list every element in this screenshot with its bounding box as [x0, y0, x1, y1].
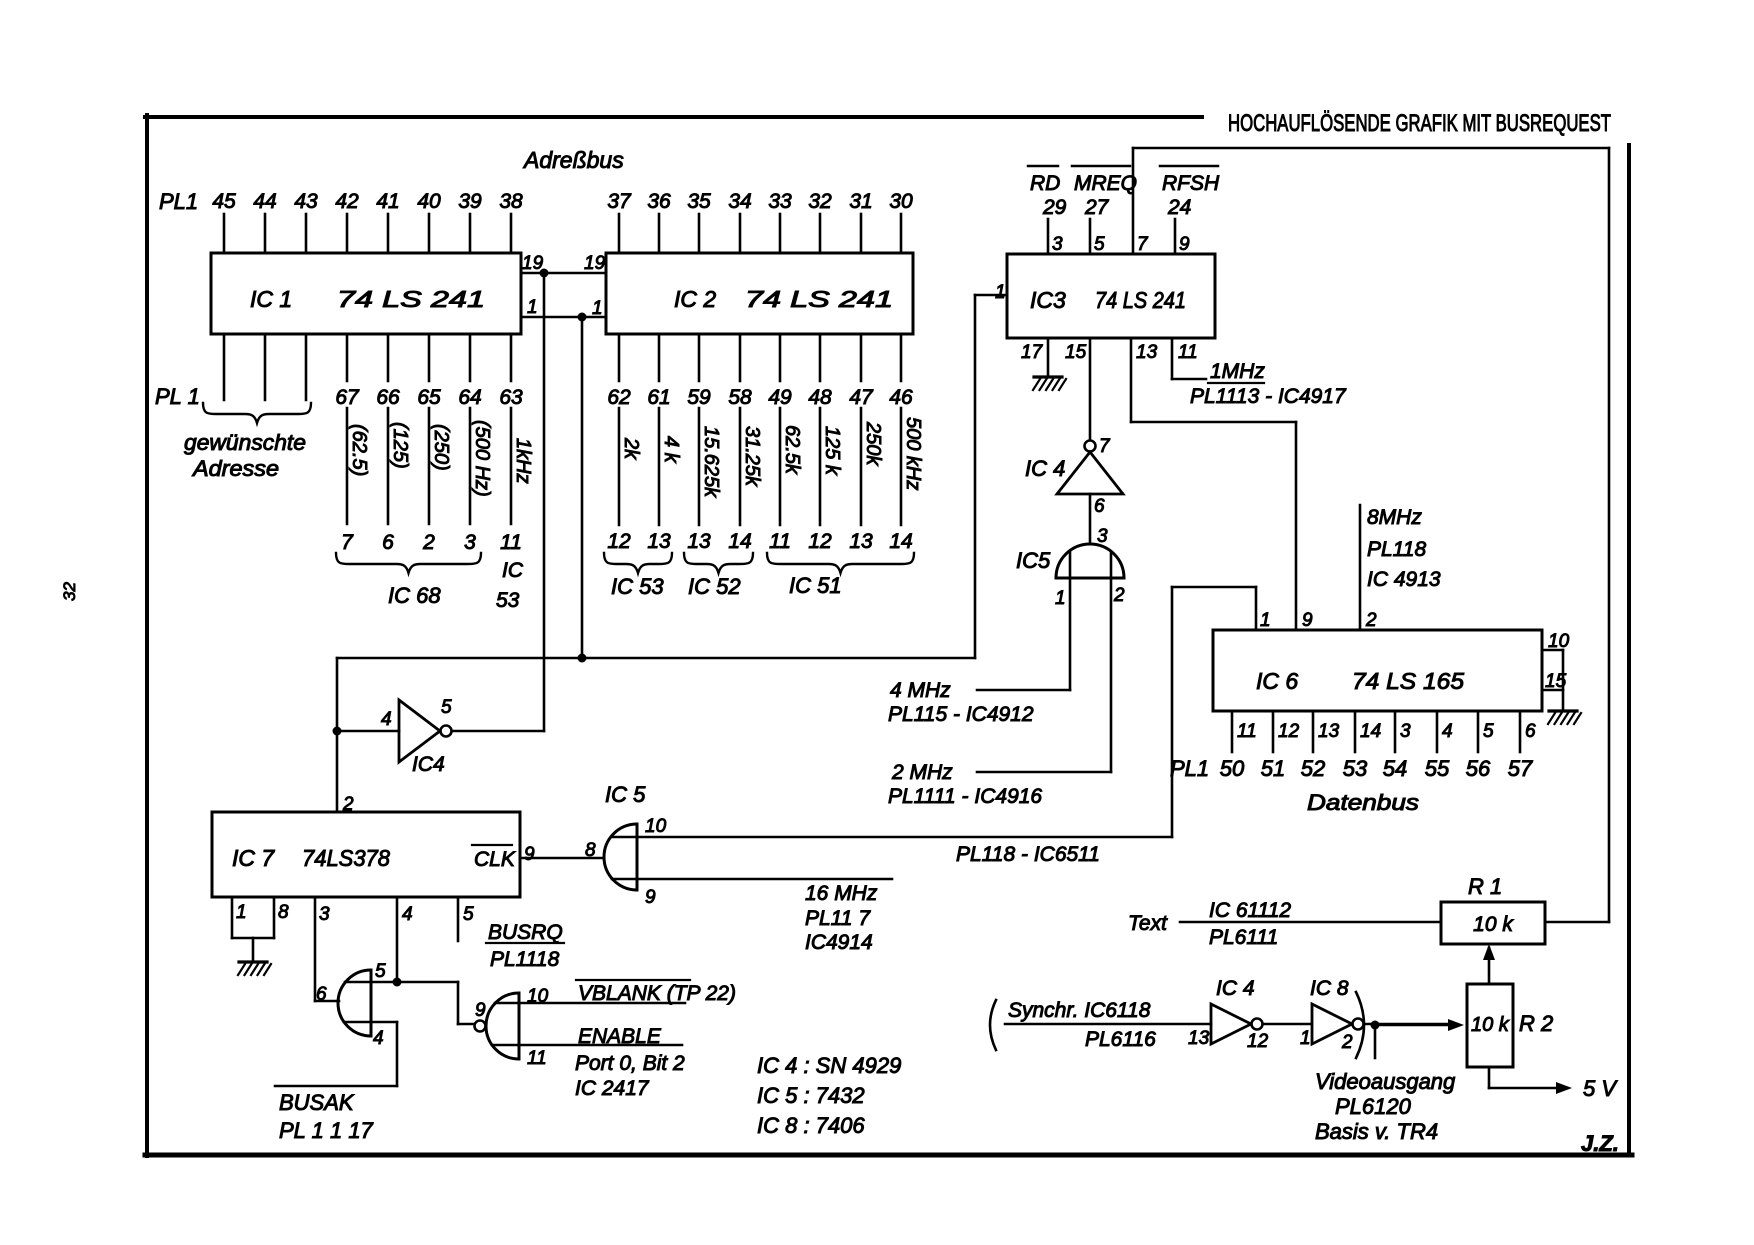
svg-text:IC 4913: IC 4913 [1367, 568, 1441, 591]
svg-text:IC4914: IC4914 [805, 931, 873, 954]
svg-text:IC 51: IC 51 [789, 573, 842, 598]
svg-text:Synchr. IC6118: Synchr. IC6118 [1008, 999, 1151, 1022]
svg-text:32: 32 [808, 190, 832, 213]
svg-text:RFSH: RFSH [1162, 172, 1220, 195]
svg-text:(500 Hz): (500 Hz) [471, 420, 493, 497]
svg-text:1: 1 [592, 298, 603, 319]
svg-text:IC 8 : 7406: IC 8 : 7406 [757, 1113, 865, 1138]
svg-text:31: 31 [849, 190, 872, 213]
svg-text:4 k: 4 k [660, 436, 682, 464]
svg-text:Port 0, Bit 2: Port 0, Bit 2 [575, 1052, 685, 1075]
svg-text:7: 7 [341, 531, 354, 554]
svg-text:6: 6 [1094, 496, 1105, 517]
svg-text:13: 13 [1136, 342, 1158, 363]
svg-text:47: 47 [849, 386, 874, 409]
svg-text:11: 11 [1237, 721, 1257, 742]
svg-text:5 V: 5 V [1583, 1076, 1618, 1101]
svg-text:46: 46 [889, 386, 913, 409]
svg-text:37: 37 [607, 190, 632, 213]
svg-text:PL118 - IC6511: PL118 - IC6511 [956, 843, 1100, 866]
svg-text:14: 14 [889, 530, 912, 553]
svg-text:38: 38 [499, 190, 523, 213]
svg-text:5: 5 [375, 961, 386, 982]
svg-text:2: 2 [1341, 1032, 1353, 1053]
svg-text:7: 7 [1099, 436, 1111, 457]
svg-text:41: 41 [376, 190, 399, 213]
svg-text:30: 30 [889, 190, 913, 213]
svg-text:62.5k: 62.5k [781, 425, 803, 475]
svg-text:15: 15 [1065, 342, 1087, 363]
svg-text:9: 9 [524, 844, 535, 865]
svg-text:11: 11 [1178, 342, 1198, 363]
svg-text:33: 33 [768, 190, 792, 213]
svg-text:4: 4 [381, 709, 392, 730]
svg-text:IC 4: IC 4 [1216, 977, 1255, 1000]
svg-text:11: 11 [500, 531, 522, 554]
svg-text:9: 9 [1179, 234, 1190, 255]
svg-text:52: 52 [1301, 756, 1325, 781]
svg-text:53: 53 [1343, 756, 1368, 781]
svg-text:6: 6 [316, 984, 327, 1005]
svg-text:IC 6: IC 6 [1256, 668, 1298, 694]
svg-text:54: 54 [1383, 756, 1407, 781]
svg-text:1: 1 [1260, 610, 1271, 631]
svg-text:10 k: 10 k [1471, 1014, 1510, 1036]
svg-text:2: 2 [342, 794, 354, 815]
svg-text:IC5: IC5 [1016, 548, 1051, 573]
svg-text:4: 4 [1442, 721, 1453, 742]
svg-text:63: 63 [499, 386, 523, 409]
svg-text:10: 10 [645, 816, 667, 837]
svg-text:19: 19 [584, 253, 606, 274]
svg-text:5: 5 [1483, 721, 1494, 742]
svg-text:39: 39 [458, 190, 482, 213]
svg-text:11: 11 [527, 1048, 547, 1069]
svg-text:2: 2 [1113, 585, 1125, 606]
svg-text:40: 40 [417, 190, 441, 213]
svg-text:5: 5 [1094, 234, 1105, 255]
svg-text:Text: Text [1128, 912, 1168, 935]
svg-text:IC 53: IC 53 [611, 574, 664, 599]
svg-text:2 MHz: 2 MHz [891, 761, 953, 784]
svg-text:44: 44 [253, 190, 276, 213]
svg-text:Adresse: Adresse [191, 456, 279, 481]
svg-text:8: 8 [278, 902, 289, 923]
svg-text:61: 61 [647, 386, 670, 409]
svg-text:6: 6 [382, 531, 394, 554]
svg-text:42: 42 [335, 190, 359, 213]
svg-text:Datenbus: Datenbus [1307, 790, 1419, 815]
svg-text:PL1111 - IC4916: PL1111 - IC4916 [888, 785, 1042, 808]
svg-text:74 LS 241: 74 LS 241 [1095, 287, 1186, 313]
svg-text:PL115 - IC4912: PL115 - IC4912 [888, 703, 1034, 726]
svg-text:RD: RD [1030, 172, 1060, 195]
svg-text:12: 12 [607, 530, 631, 553]
svg-text:Basis v. TR4: Basis v. TR4 [1315, 1119, 1438, 1144]
svg-text:gewünschte: gewünschte [184, 430, 306, 455]
svg-text:IC 4: IC 4 [1025, 456, 1065, 481]
svg-text:50: 50 [1220, 756, 1245, 781]
svg-text:IC 2417: IC 2417 [575, 1077, 650, 1100]
svg-text:1: 1 [995, 282, 1006, 303]
svg-text:250k: 250k [862, 421, 884, 466]
svg-text:14: 14 [728, 530, 751, 553]
svg-text:1: 1 [236, 902, 247, 923]
svg-text:32: 32 [60, 582, 79, 601]
svg-text:10 k: 10 k [1473, 913, 1514, 936]
svg-text:66: 66 [376, 386, 400, 409]
svg-text:53: 53 [496, 589, 520, 612]
svg-text:45: 45 [212, 190, 236, 213]
svg-text:1: 1 [1300, 1028, 1311, 1049]
svg-text:PL1: PL1 [1170, 756, 1209, 781]
svg-text:IC 7: IC 7 [232, 845, 275, 871]
svg-text:6: 6 [1525, 721, 1536, 742]
svg-text:24: 24 [1167, 196, 1191, 219]
svg-text:8: 8 [585, 840, 596, 861]
svg-text:IC 5: IC 5 [605, 782, 646, 807]
svg-text:BUSAK: BUSAK [279, 1090, 355, 1115]
svg-text:MREQ: MREQ [1074, 172, 1137, 195]
svg-text:3: 3 [319, 904, 330, 925]
svg-text:IC 8: IC 8 [1310, 977, 1349, 1000]
svg-text:48: 48 [808, 386, 832, 409]
svg-text:IC: IC [502, 559, 524, 582]
svg-text:IC3: IC3 [1030, 287, 1066, 313]
svg-text:PL1118: PL1118 [490, 948, 560, 971]
svg-text:PL1: PL1 [159, 189, 198, 214]
svg-text:10: 10 [1548, 631, 1570, 652]
svg-text:PL11 7: PL11 7 [805, 907, 871, 930]
svg-text:9: 9 [1302, 610, 1313, 631]
svg-text:8MHz: 8MHz [1367, 506, 1422, 529]
svg-text:J.Z.: J.Z. [1581, 1131, 1619, 1156]
svg-text:1kHz: 1kHz [512, 438, 534, 484]
svg-text:VBLANK (TP 22): VBLANK (TP 22) [578, 982, 736, 1005]
svg-text:57: 57 [1508, 756, 1533, 781]
svg-text:15.625k: 15.625k [700, 426, 722, 498]
svg-text:43: 43 [294, 190, 318, 213]
svg-text:1: 1 [1055, 588, 1066, 609]
svg-text:5: 5 [463, 904, 474, 925]
svg-text:13: 13 [1188, 1028, 1210, 1049]
svg-text:IC4: IC4 [412, 753, 445, 776]
svg-text:PL6120: PL6120 [1335, 1094, 1412, 1119]
svg-text:58: 58 [728, 386, 752, 409]
svg-text:3: 3 [1400, 721, 1411, 742]
svg-text:27: 27 [1084, 196, 1110, 219]
svg-text:2k: 2k [620, 437, 642, 460]
svg-text:2: 2 [422, 531, 435, 554]
svg-text:2: 2 [1365, 610, 1377, 631]
svg-text:PL 1: PL 1 [155, 384, 200, 409]
svg-text:16 MHz: 16 MHz [805, 882, 878, 905]
svg-text:R 1: R 1 [1468, 874, 1502, 899]
svg-text:3: 3 [1052, 234, 1063, 255]
svg-text:9: 9 [645, 887, 656, 908]
svg-text:3: 3 [464, 531, 476, 554]
svg-text:56: 56 [1466, 756, 1491, 781]
svg-text:IC 52: IC 52 [688, 574, 741, 599]
svg-text:67: 67 [335, 386, 360, 409]
svg-text:11: 11 [769, 530, 791, 553]
svg-text:34: 34 [728, 190, 751, 213]
svg-text:4: 4 [373, 1028, 384, 1049]
svg-text:Videoausgang: Videoausgang [1315, 1069, 1456, 1094]
svg-text:31.25k: 31.25k [741, 426, 763, 487]
svg-text:12: 12 [1247, 1031, 1269, 1052]
svg-text:HOCHAUFLÖSENDE GRAFIK MIT BUSR: HOCHAUFLÖSENDE GRAFIK MIT BUSREQUEST [1228, 110, 1611, 137]
svg-text:55: 55 [1425, 756, 1450, 781]
svg-text:36: 36 [647, 190, 671, 213]
svg-text:74LS378: 74LS378 [302, 845, 390, 871]
svg-text:65: 65 [417, 386, 441, 409]
svg-text:13: 13 [647, 530, 671, 553]
svg-text:12: 12 [1278, 721, 1300, 742]
svg-text:49: 49 [768, 386, 792, 409]
svg-text:R 2: R 2 [1519, 1011, 1553, 1036]
svg-text:51: 51 [1261, 756, 1285, 781]
svg-text:74 LS 241: 74 LS 241 [745, 286, 893, 312]
svg-text:59: 59 [687, 386, 711, 409]
svg-text:IC 1: IC 1 [250, 286, 292, 312]
svg-text:(125): (125) [389, 422, 411, 469]
svg-text:Adreßbus: Adreßbus [522, 147, 624, 173]
svg-text:1: 1 [527, 297, 538, 318]
svg-text:74 LS 241: 74 LS 241 [337, 286, 485, 312]
svg-text:17: 17 [1021, 342, 1044, 363]
svg-text:9: 9 [475, 1000, 486, 1021]
svg-text:CLK: CLK [474, 848, 516, 871]
svg-text:35: 35 [687, 190, 711, 213]
svg-text:PL118: PL118 [1367, 538, 1426, 561]
svg-text:ENABLE: ENABLE [578, 1025, 662, 1048]
svg-text:PL6111: PL6111 [1209, 926, 1278, 949]
svg-text:1MHz: 1MHz [1210, 360, 1265, 383]
svg-text:500 kHz: 500 kHz [902, 417, 924, 490]
svg-text:4 MHz: 4 MHz [890, 679, 951, 702]
svg-text:IC 5 : 7432: IC 5 : 7432 [757, 1083, 865, 1108]
svg-text:IC 2: IC 2 [674, 286, 716, 312]
svg-text:IC 61112: IC 61112 [1209, 899, 1291, 922]
svg-text:125 k: 125 k [821, 426, 843, 476]
svg-text:62: 62 [607, 386, 631, 409]
svg-text:PL1113 - IC4917: PL1113 - IC4917 [1190, 385, 1347, 408]
svg-text:13: 13 [1318, 721, 1340, 742]
svg-text:BUSRQ: BUSRQ [488, 921, 563, 944]
svg-text:(62.5): (62.5) [348, 424, 370, 476]
svg-text:IC 4 : SN 4929: IC 4 : SN 4929 [757, 1053, 901, 1078]
svg-text:7: 7 [1137, 234, 1149, 255]
svg-text:15: 15 [1545, 671, 1567, 692]
svg-text:13: 13 [687, 530, 711, 553]
svg-text:14: 14 [1360, 721, 1381, 742]
svg-text:13: 13 [849, 530, 873, 553]
svg-text:4: 4 [402, 904, 413, 925]
svg-text:74 LS 165: 74 LS 165 [1352, 668, 1464, 694]
svg-text:IC 68: IC 68 [388, 583, 441, 608]
svg-text:5: 5 [441, 697, 452, 718]
svg-text:PL6116: PL6116 [1085, 1028, 1156, 1051]
svg-text:12: 12 [808, 530, 832, 553]
svg-text:29: 29 [1042, 196, 1067, 219]
svg-text:64: 64 [458, 386, 481, 409]
svg-text:PL 1 1 17: PL 1 1 17 [279, 1118, 374, 1143]
svg-text:(250): (250) [430, 424, 452, 471]
